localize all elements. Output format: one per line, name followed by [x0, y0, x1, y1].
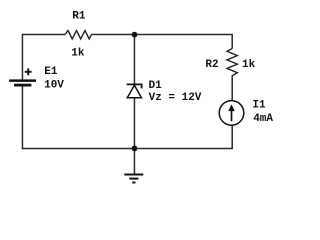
svg-text:I1: I1 — [252, 100, 266, 112]
resistor R1 — [65, 31, 93, 39]
svg-text:R2: R2 — [205, 59, 218, 71]
svg-text:1k: 1k — [242, 59, 256, 71]
wire diode branch upper — [133, 34, 135, 85]
svg-text:Vz = 12V: Vz = 12V — [149, 92, 202, 104]
wire ground stem — [133, 148, 135, 174]
ground bar 3 — [132, 182, 135, 184]
wire left vertical upper (top rail corner to battery) — [22, 34, 65, 79]
wire bottom rail — [22, 126, 233, 149]
wire top rail right of R1 — [94, 34, 233, 48]
battery plus sign — [25, 68, 32, 75]
ground bar 1 — [124, 174, 143, 176]
zener diode D1 cathode bar with hook — [127, 84, 142, 88]
current source I1 arrowhead — [228, 104, 235, 111]
svg-text:R1: R1 — [72, 11, 86, 23]
wire left vertical below battery — [21, 86, 23, 149]
svg-text:E1: E1 — [44, 66, 58, 78]
svg-text:1k: 1k — [71, 47, 85, 59]
node junction top (diode tap) — [132, 32, 138, 38]
zener diode D1 triangle — [127, 85, 141, 97]
node junction bottom (ground tap) — [132, 146, 138, 152]
svg-text:D1: D1 — [149, 80, 163, 92]
svg-text:4mA: 4mA — [253, 113, 273, 125]
resistor R2 — [227, 49, 237, 79]
svg-text:10V: 10V — [44, 80, 64, 92]
battery E1 bottom plate — [14, 84, 31, 87]
wire R2 to current source — [231, 78, 233, 101]
current source I1 arrow shaft — [231, 109, 233, 122]
battery E1 top plate — [9, 79, 36, 82]
wire diode branch lower — [133, 98, 135, 149]
ground bar 2 — [129, 178, 138, 180]
current source I1 circle — [219, 101, 244, 126]
